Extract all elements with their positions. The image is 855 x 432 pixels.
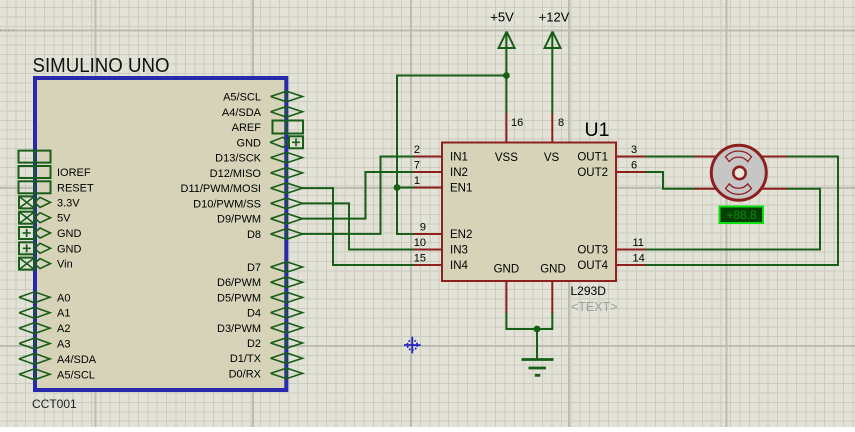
svg-text:EN1: EN1 bbox=[450, 183, 472, 195]
pin OUT4 stub bbox=[577, 253, 645, 273]
arduino pin GND right bbox=[237, 136, 303, 149]
power +12V bbox=[539, 9, 570, 48]
arduino pin GND bbox=[19, 242, 82, 255]
pin IN4 stub bbox=[414, 253, 469, 273]
arduino pin D1/TX bbox=[230, 353, 303, 365]
arduino pin D2 bbox=[247, 338, 303, 350]
arduino pin D0/RX bbox=[229, 368, 303, 380]
motor terminal line upper bbox=[695, 156, 787, 158]
wire motor lower-right to OUT3 bbox=[646, 189, 821, 250]
arduino pin D12/MISO bbox=[210, 168, 303, 180]
arduino pin A5/SCL bbox=[19, 369, 95, 382]
svg-text:A0: A0 bbox=[57, 292, 70, 304]
arduino pin D13/SCK bbox=[215, 152, 302, 164]
arduino pin 5V bbox=[19, 212, 71, 225]
wire GND pins to ground bbox=[506, 313, 552, 329]
arduino pin A4/SDA bbox=[222, 107, 303, 119]
svg-text:VSS: VSS bbox=[495, 152, 518, 164]
svg-text:8: 8 bbox=[558, 117, 564, 129]
junction dot EN1 bbox=[394, 184, 401, 191]
pin EN2 stub bbox=[414, 222, 472, 242]
svg-text:11: 11 bbox=[633, 237, 644, 249]
svg-text:D7: D7 bbox=[247, 262, 261, 274]
arduino pin D5/PWM bbox=[217, 292, 303, 304]
svg-text:+88.8: +88.8 bbox=[726, 208, 757, 222]
svg-text:D0/RX: D0/RX bbox=[229, 368, 262, 380]
svg-text:OUT3: OUT3 bbox=[577, 245, 608, 257]
wire D9 to IN2 bbox=[303, 172, 415, 219]
svg-text:GND: GND bbox=[57, 243, 82, 255]
pin GND bottom-right stub bbox=[540, 264, 566, 314]
svg-text:10: 10 bbox=[414, 237, 426, 249]
arduino pin D11/PWM/MOSI bbox=[181, 183, 303, 195]
svg-text:IN3: IN3 bbox=[450, 245, 468, 257]
arduino pin GND bbox=[19, 227, 82, 240]
wire D10 to IN3 bbox=[303, 203, 415, 249]
svg-text:CCT001: CCT001 bbox=[32, 397, 77, 411]
svg-text:IN1: IN1 bbox=[450, 152, 468, 164]
wire D8 to IN1 bbox=[303, 157, 415, 234]
arduino pin A5/SCL bbox=[223, 91, 302, 103]
svg-text:D2: D2 bbox=[247, 338, 261, 350]
svg-text:D11/PWM/MOSI: D11/PWM/MOSI bbox=[181, 183, 261, 195]
svg-text:A5/SCL: A5/SCL bbox=[57, 369, 95, 381]
wire +5V to VSS pin 16 bbox=[505, 33, 507, 114]
power +5V bbox=[490, 9, 514, 48]
svg-text:D3/PWM: D3/PWM bbox=[217, 323, 261, 335]
arduino pin D9/PWM bbox=[217, 213, 303, 225]
arduino pin A4/SDA bbox=[19, 353, 97, 366]
wire ground drop bbox=[536, 329, 538, 359]
motor terminal line lower bbox=[695, 188, 787, 190]
wire +5V branch to EN1/EN2 bbox=[397, 76, 506, 235]
pin GND bottom-left stub bbox=[494, 264, 520, 314]
svg-text:D10/PWM/SS: D10/PWM/SS bbox=[193, 198, 261, 210]
pin VS 8 stub bbox=[544, 113, 564, 164]
arduino pin A3 bbox=[19, 338, 70, 351]
arduino pin D7 bbox=[247, 262, 303, 274]
svg-text:D8: D8 bbox=[247, 229, 261, 241]
svg-text:15: 15 bbox=[414, 253, 426, 265]
svg-text:OUT1: OUT1 bbox=[577, 152, 608, 164]
arduino pin D6/PWM bbox=[217, 277, 303, 289]
svg-text:6: 6 bbox=[631, 160, 637, 172]
svg-text:A4/SDA: A4/SDA bbox=[57, 354, 97, 366]
arduino pin AREF bbox=[232, 121, 303, 135]
svg-text:+12V: +12V bbox=[539, 9, 570, 24]
pin IN3 stub bbox=[414, 237, 468, 257]
pin IN2 stub bbox=[414, 160, 468, 180]
arduino pin D10/PWM/SS bbox=[193, 198, 302, 210]
svg-text:GND: GND bbox=[494, 264, 520, 276]
svg-text:RESET: RESET bbox=[57, 182, 94, 194]
svg-text:U1: U1 bbox=[585, 119, 610, 141]
svg-text:D9/PWM: D9/PWM bbox=[217, 214, 261, 226]
svg-text:D6/PWM: D6/PWM bbox=[217, 277, 261, 289]
op-amp U1 L293D body bbox=[442, 143, 616, 282]
svg-text:OUT4: OUT4 bbox=[577, 260, 608, 272]
svg-text:L293D: L293D bbox=[571, 284, 607, 298]
svg-text:D1/TX: D1/TX bbox=[230, 353, 262, 365]
arduino pin D3/PWM bbox=[217, 323, 303, 335]
svg-text:GND: GND bbox=[57, 228, 82, 240]
junction dot ground bbox=[534, 326, 541, 333]
arduino pin A0 bbox=[19, 292, 70, 305]
arduino pin A1 bbox=[19, 307, 70, 320]
svg-text:EN2: EN2 bbox=[450, 229, 472, 241]
arduino pin 3.3V bbox=[19, 196, 80, 209]
wire motor upper-right to OUT4 loop bbox=[646, 157, 839, 266]
svg-text:IOREF: IOREF bbox=[57, 167, 91, 179]
wire D11 to IN4 bbox=[303, 188, 415, 265]
wire OUT2 to motor lower-left bbox=[646, 172, 696, 189]
svg-text:D12/MISO: D12/MISO bbox=[210, 168, 262, 180]
arduino pin RESET bbox=[19, 181, 94, 194]
svg-text:9: 9 bbox=[420, 222, 426, 234]
arduino pin IOREF bbox=[19, 166, 91, 179]
ground bbox=[522, 360, 554, 376]
svg-text:A5/SCL: A5/SCL bbox=[223, 92, 261, 104]
motor body bbox=[711, 145, 766, 200]
wire +12V to VS pin 8 bbox=[551, 33, 553, 114]
svg-text:SIMULINO UNO: SIMULINO UNO bbox=[33, 55, 170, 77]
svg-text:A4/SDA: A4/SDA bbox=[222, 107, 262, 119]
svg-text:A3: A3 bbox=[57, 339, 70, 351]
pin OUT2 stub bbox=[577, 160, 645, 180]
arduino pin D8 bbox=[247, 229, 303, 241]
svg-text:D13/SCK: D13/SCK bbox=[215, 153, 262, 165]
junction dot +5V branch bbox=[503, 72, 510, 79]
arduino pin D4 bbox=[247, 307, 303, 319]
pin OUT3 stub bbox=[577, 237, 645, 257]
svg-text:D5/PWM: D5/PWM bbox=[217, 292, 261, 304]
svg-text:5V: 5V bbox=[57, 213, 71, 225]
svg-text:16: 16 bbox=[511, 117, 523, 129]
svg-text:14: 14 bbox=[633, 253, 645, 265]
svg-text:3: 3 bbox=[631, 144, 637, 156]
svg-text:3.3V: 3.3V bbox=[57, 197, 80, 209]
arduino pin Vin bbox=[19, 258, 73, 271]
svg-text:IN2: IN2 bbox=[450, 167, 468, 179]
pin VSS 16 stub bbox=[495, 113, 523, 164]
svg-text:OUT2: OUT2 bbox=[577, 167, 608, 179]
wire OUT1 to motor upper-left bbox=[646, 156, 696, 158]
arduino board SIMULINO UNO bbox=[35, 78, 286, 390]
pin OUT1 stub bbox=[577, 144, 645, 164]
svg-text:7: 7 bbox=[414, 160, 420, 172]
arduino pin NC bbox=[19, 151, 51, 163]
svg-text:VS: VS bbox=[544, 152, 560, 164]
svg-text:<TEXT>: <TEXT> bbox=[571, 300, 618, 314]
svg-text:Vin: Vin bbox=[57, 259, 73, 271]
arduino pin A2 bbox=[19, 323, 70, 336]
svg-text:+5V: +5V bbox=[490, 9, 514, 24]
svg-text:GND: GND bbox=[237, 137, 262, 149]
svg-text:1: 1 bbox=[414, 175, 420, 187]
pin IN1 stub bbox=[414, 144, 468, 164]
svg-text:GND: GND bbox=[540, 264, 566, 276]
svg-text:IN4: IN4 bbox=[450, 260, 469, 272]
wire EN1 tap bbox=[397, 187, 414, 189]
svg-text:AREF: AREF bbox=[232, 122, 262, 134]
svg-text:D4: D4 bbox=[247, 308, 261, 320]
origin marker bbox=[404, 337, 421, 354]
pin EN1 stub bbox=[414, 175, 473, 195]
motor rpm display +88.8 bbox=[720, 207, 764, 224]
svg-text:A2: A2 bbox=[57, 323, 70, 335]
svg-text:2: 2 bbox=[414, 144, 420, 156]
svg-text:A1: A1 bbox=[57, 308, 70, 320]
